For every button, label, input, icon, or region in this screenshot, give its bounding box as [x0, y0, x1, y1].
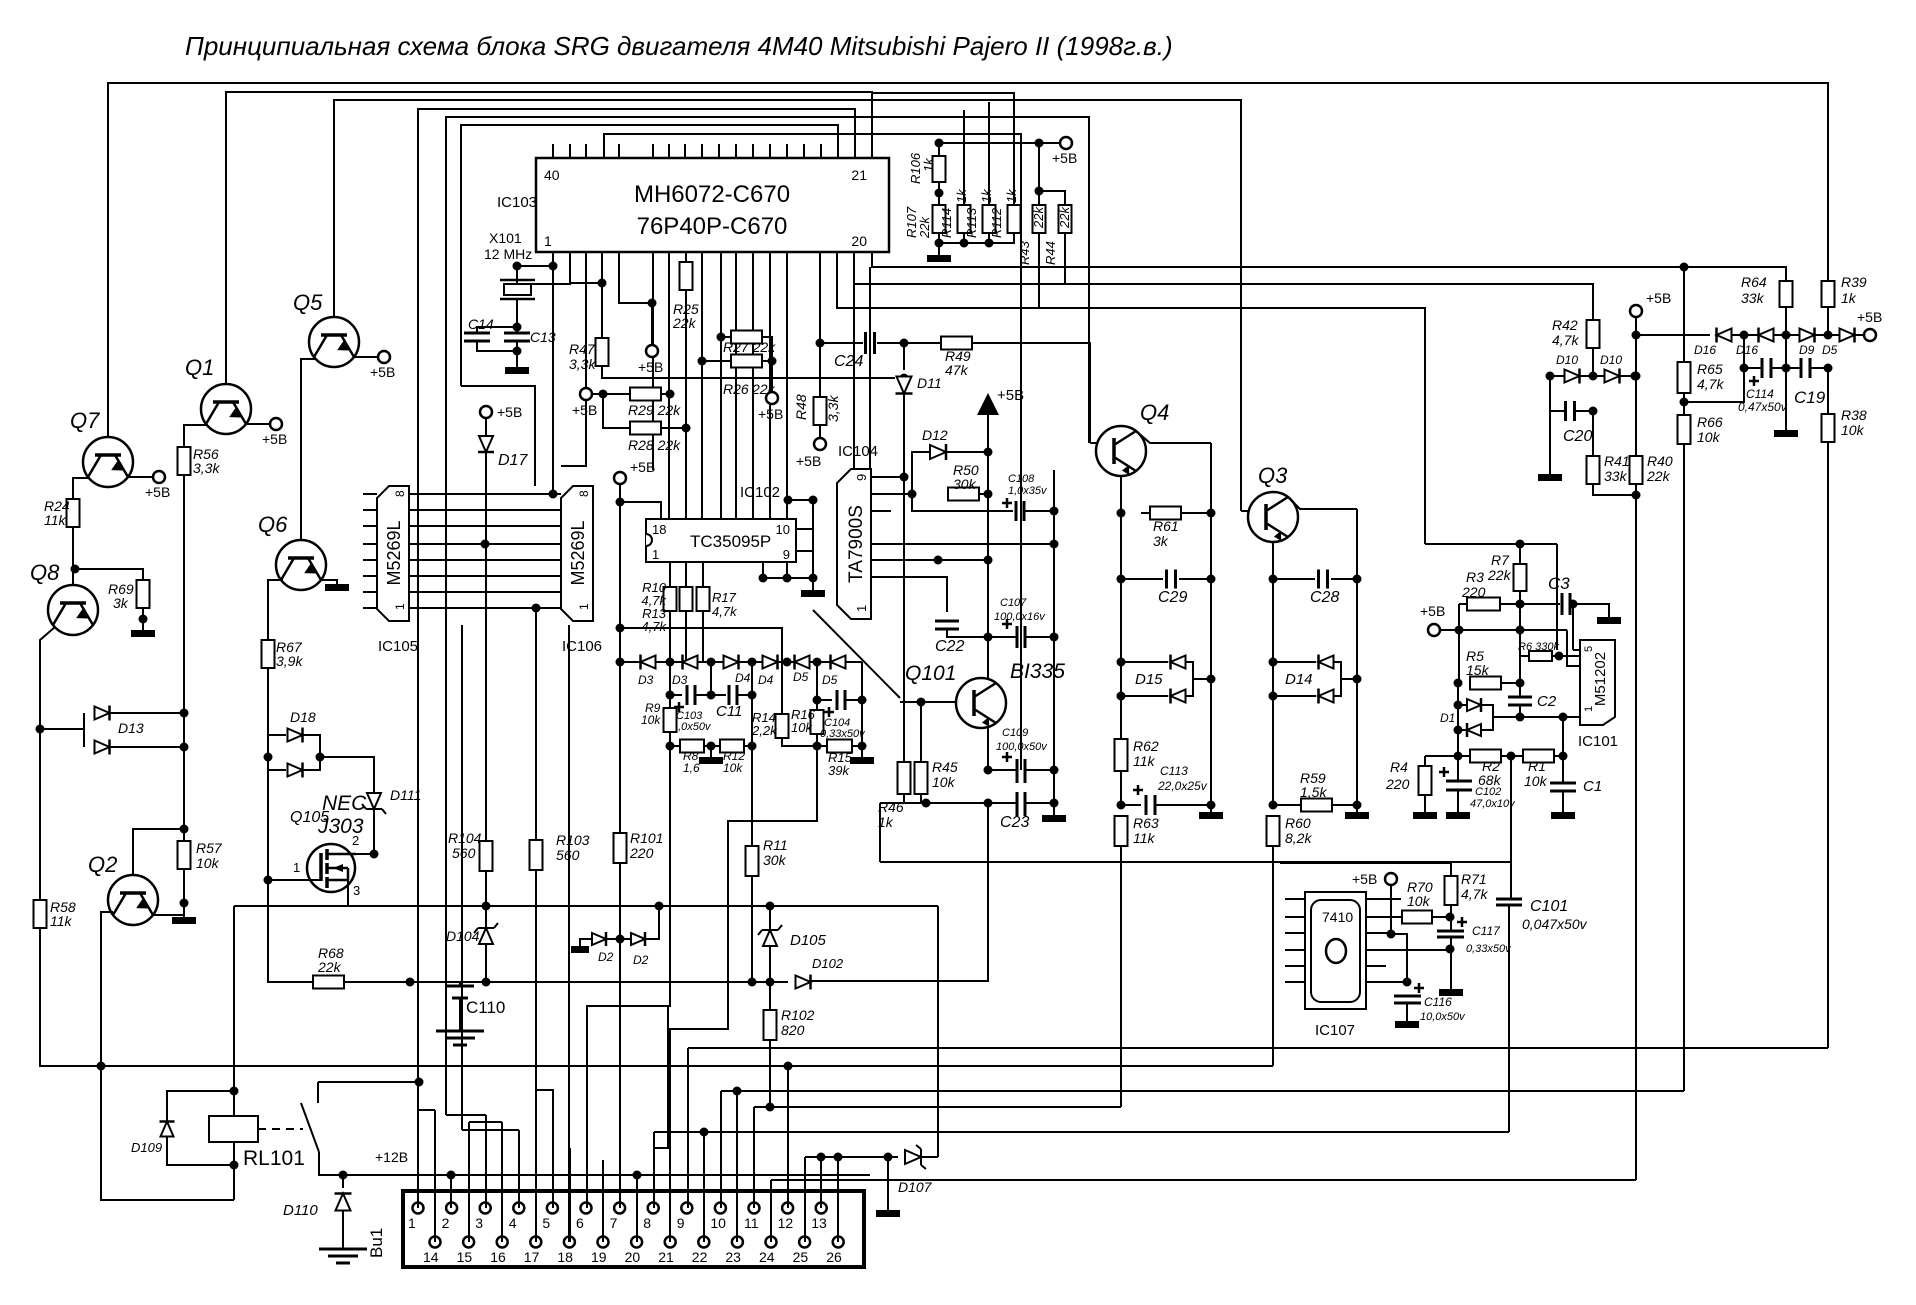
wire pin20 riser [636, 1175, 638, 1242]
transistor Q7 [83, 437, 133, 487]
connector pin 24 [766, 1237, 777, 1248]
capacitor C107 100,0x16v [1017, 626, 1025, 648]
svg-text:МН6072-С670: МН6072-С670 [634, 181, 790, 208]
wire C113 right [1155, 804, 1211, 806]
wire IC103 pin col 753 [752, 252, 754, 519]
wire X101 to C13 [516, 299, 518, 332]
node cap a [666, 691, 675, 700]
svg-text:C29: C29 [1158, 589, 1187, 606]
wire R11 down [751, 876, 753, 982]
wire R57 to ground [183, 869, 185, 917]
wire to ground [1210, 805, 1212, 812]
wire D2b up [645, 906, 659, 939]
terminal +5B D17 [480, 406, 492, 418]
svg-text:11: 11 [744, 1215, 759, 1231]
wire Q3 emitter col [1356, 509, 1358, 579]
svg-text:+5B: +5B [1857, 309, 1882, 325]
node C19 right [1824, 364, 1833, 373]
svg-text:5: 5 [542, 1215, 550, 1231]
svg-text:6: 6 [576, 1215, 584, 1231]
resistor R58 11k [34, 900, 47, 928]
resistor R16 10k [811, 710, 824, 734]
svg-text:8: 8 [393, 490, 407, 497]
resistor R101 220 [614, 833, 627, 863]
wire D11 col to R46 [903, 477, 905, 762]
wire R43 R44 tops [1039, 191, 1065, 205]
wire stair y1132 [654, 1131, 1509, 1133]
wire col1054 seg [1053, 770, 1055, 803]
wire IC103 pin col 770 [769, 252, 771, 519]
wire C24 to R49 [877, 342, 941, 344]
svg-text:3,3k: 3,3k [825, 395, 841, 422]
node C113 left [1117, 801, 1126, 810]
svg-text:10k: 10k [723, 761, 743, 775]
svg-text:16: 16 [490, 1249, 506, 1265]
svg-text:C107: C107 [1000, 597, 1027, 609]
wire C24 left [820, 342, 863, 344]
svg-text:Принципиальная схема блока SRG: Принципиальная схема блока SRG двигателя… [185, 31, 1173, 61]
node D16 mid [1740, 331, 1749, 340]
svg-text:+5B: +5B [630, 459, 655, 475]
terminal +5B Q1 [270, 418, 282, 430]
node pin1 riser [415, 1078, 424, 1087]
wire C114 right [1771, 367, 1786, 369]
wire R5 right [1501, 682, 1520, 684]
svg-text:R47: R47 [569, 341, 596, 357]
svg-text:0,33x50v: 0,33x50v [1466, 943, 1512, 955]
wire D9-D5 [1815, 334, 1840, 336]
svg-text:R40: R40 [1647, 453, 1673, 469]
wire R10 down [669, 611, 671, 662]
diode D1b [1467, 724, 1481, 736]
node C13 C14 join [513, 347, 522, 356]
svg-text:33k: 33k [1741, 290, 1765, 306]
IC IC107 7410 [1305, 892, 1366, 1009]
svg-text:22k: 22k [1031, 206, 1046, 229]
node D1 right [1516, 713, 1525, 722]
wire D15 bracket [1186, 662, 1193, 696]
node relay top [230, 1087, 239, 1096]
node R68 right [406, 978, 415, 987]
capacitor C11 [729, 685, 737, 705]
wire D2a to D2b [606, 938, 631, 940]
svg-text:Q6: Q6 [258, 512, 288, 537]
node C29 right [1207, 575, 1216, 584]
resistor R103 560 [530, 840, 543, 870]
svg-text:22k: 22k [1487, 567, 1512, 583]
svg-text:33k: 33k [1604, 468, 1628, 484]
node row a [666, 658, 675, 667]
terminal +5B D10 [1630, 305, 1642, 317]
zener D105 [763, 930, 777, 946]
node Q105 drain [370, 850, 379, 859]
wire D110 to earth [342, 1210, 344, 1249]
resistor R64 33k [1780, 281, 1793, 307]
wire Q101 collector up [987, 637, 989, 680]
svg-text:+5В: +5В [145, 484, 170, 500]
capacitor C103 1,0x50v [687, 685, 695, 705]
resistor R65 4,7k [1678, 362, 1691, 393]
svg-text:D14: D14 [1285, 671, 1313, 688]
capacitor C22 [935, 621, 959, 629]
capacitor C101 0,047x50v [1496, 899, 1522, 905]
wire pin12 riser [787, 1066, 789, 1208]
wire C11 right [737, 694, 752, 696]
connector pin 8 [648, 1203, 659, 1214]
wire IC103 pin col 721 [720, 252, 722, 519]
node D107 gnd [884, 1153, 893, 1162]
wire R27 right to +5B [762, 337, 772, 392]
wire col461 to IC106 top [461, 386, 535, 486]
node D13b right [180, 743, 189, 752]
svg-text:3k: 3k [113, 595, 129, 611]
wire D104 to y981 [485, 944, 487, 982]
wire R25 bottom col [685, 290, 687, 519]
node C116 top [1403, 978, 1412, 987]
svg-text:0,47x50v: 0,47x50v [1738, 400, 1788, 414]
svg-text:13: 13 [811, 1215, 827, 1231]
wire R4 to R2 [1425, 755, 1458, 757]
diode D16b [1759, 329, 1774, 342]
connector pin 14 [430, 1237, 441, 1248]
svg-text:100,0x50v: 100,0x50v [996, 741, 1048, 753]
node R101 top [616, 658, 625, 667]
wire d2 down [781, 662, 783, 714]
wire R3 to C3 [1500, 603, 1560, 605]
svg-text:Q2: Q2 [88, 852, 117, 877]
svg-text:R104: R104 [448, 830, 482, 846]
wire +5B stub [651, 303, 653, 345]
svg-text:5: 5 [1583, 646, 1595, 652]
wire stair y1048 [688, 1047, 1828, 1049]
ground Q6 [325, 584, 349, 591]
node row b [707, 658, 716, 667]
svg-text:C24: C24 [834, 353, 863, 370]
connector pin 26 [833, 1237, 844, 1248]
wire C20 right [1575, 410, 1593, 412]
wire relay coil bottom [233, 1142, 235, 1200]
wire IC104 top pin a [853, 284, 855, 469]
IC IC101 M51202 [1580, 640, 1615, 725]
wire D107 riser [937, 906, 939, 1157]
wire IC102 pin9 [796, 550, 813, 552]
capacitor C20 [1566, 401, 1575, 421]
svg-text:1: 1 [577, 603, 591, 610]
node R69 bottom [139, 615, 148, 624]
node +5B R3 col [1455, 626, 1464, 635]
wire D1 to IC101 pin1 [1493, 716, 1580, 718]
node C24 left [816, 339, 825, 348]
wire C23 right [1025, 802, 1054, 804]
node R50 right [984, 490, 993, 499]
wire to C104 [817, 699, 832, 701]
wire pin22 riser [703, 1132, 705, 1242]
wire R47 bottom long net [602, 366, 895, 378]
node C20 left [1546, 372, 1555, 381]
wire C14 to ground node [477, 341, 517, 351]
wire R42 to D10 [1592, 348, 1594, 376]
svg-text:39k: 39k [828, 763, 850, 778]
svg-text:D4: D4 [735, 671, 751, 685]
wire Q5 emitter to +5B [354, 356, 377, 358]
connector pin 20 [631, 1237, 642, 1248]
wire IC101 pin a [1573, 649, 1580, 651]
node R70 R71 [1446, 913, 1455, 922]
svg-text:TC35095P: TC35095P [690, 532, 771, 551]
svg-text:R57: R57 [196, 840, 223, 856]
node pin20 +12B [633, 1171, 642, 1180]
connector pin 4 [513, 1203, 524, 1214]
wire row right down [861, 662, 863, 700]
node Q2 base line [97, 1062, 106, 1071]
wire R15 to ground [861, 746, 863, 757]
wire +5B to D17 [485, 418, 487, 437]
wire R59 right [1332, 804, 1357, 806]
ground D2 [571, 946, 589, 953]
wire R102 down [769, 1040, 771, 1107]
wire to C108 [912, 494, 1013, 511]
node cap b [707, 691, 716, 700]
svg-text:+5В: +5В [370, 364, 395, 380]
svg-text:1k: 1k [1004, 188, 1019, 203]
svg-text:1: 1 [854, 605, 869, 612]
diode D4b [763, 656, 778, 669]
resistor R56 3,3k [178, 447, 191, 475]
svg-text:+5В: +5В [262, 431, 287, 447]
svg-text:19: 19 [591, 1249, 607, 1265]
svg-text:1k: 1k [979, 188, 994, 203]
svg-text:+5B: +5B [1420, 603, 1445, 619]
resistor R71 4,7k [1445, 876, 1458, 905]
wire bus L6 to IC103 pin [461, 125, 838, 386]
wire R4 to ground [1424, 795, 1426, 812]
node R57 top [180, 825, 189, 834]
node Q101 base [917, 698, 926, 707]
wire col1636 down [1635, 495, 1637, 1180]
svg-text:D109: D109 [131, 1140, 162, 1155]
resistor R114 1k [958, 205, 971, 233]
node +5B rail [1516, 626, 1525, 635]
svg-text:40: 40 [544, 167, 560, 183]
wire pin19 riser [602, 1160, 604, 1242]
svg-text:C13: C13 [530, 329, 556, 345]
svg-text:D3: D3 [638, 673, 654, 687]
svg-text:D102: D102 [812, 956, 844, 971]
wire col536 [535, 608, 537, 840]
svg-text:R6 330k: R6 330k [1518, 641, 1559, 653]
wire long rail y862 [880, 861, 1510, 863]
svg-text:D5: D5 [822, 673, 838, 687]
wire D14a left [1273, 661, 1316, 663]
svg-text:R29 22k: R29 22k [628, 402, 681, 418]
svg-text:+5В: +5В [796, 453, 821, 469]
connector Bu1 body [403, 1191, 864, 1267]
capacitor C13 [504, 333, 530, 341]
node C22 C107 [984, 633, 993, 642]
transistor Q5 [309, 317, 359, 367]
wire pin15-16 stair [469, 1121, 502, 1123]
node R114 bottom [960, 239, 969, 248]
capacitor C108 1,0x35v [1016, 501, 1024, 521]
node R45 R46 join [922, 799, 931, 808]
resistor R59 1,5k [1301, 799, 1332, 812]
svg-text:X101: X101 [489, 230, 522, 246]
wire to R7 [1519, 544, 1521, 564]
svg-text:17: 17 [524, 1249, 540, 1265]
svg-text:D4: D4 [758, 673, 774, 687]
wire IC104 pin to right col [871, 543, 1054, 545]
capacitor C102 47,0x10v [1446, 781, 1472, 790]
resistor R26 22k [731, 355, 762, 368]
wire R2 left [1458, 755, 1470, 757]
wire R6 left [1520, 630, 1529, 656]
node y981 R11 [748, 978, 757, 987]
diode D4a [724, 656, 739, 669]
resistor R5 15k [1470, 677, 1501, 690]
diode D1a [1467, 699, 1481, 711]
capacitor C24 [866, 332, 875, 354]
connector pin 12 [782, 1203, 793, 1214]
svg-text:20: 20 [625, 1249, 641, 1265]
wire +5B rail top right [939, 142, 1066, 144]
svg-text:+5В: +5В [638, 359, 663, 375]
wire pin24 riser [770, 1180, 772, 1242]
svg-text:R112: R112 [989, 207, 1004, 238]
svg-text:C113: C113 [1160, 764, 1188, 778]
wire D1b left [1458, 729, 1466, 731]
connector pin 18 [564, 1237, 575, 1248]
svg-text:R113: R113 [964, 207, 979, 238]
wire to R45 [920, 702, 922, 762]
svg-text:12: 12 [778, 1215, 794, 1231]
node R15 right [858, 742, 867, 751]
node row e [813, 658, 822, 667]
resistor R12 10k [720, 740, 744, 753]
wire R112 bottom [989, 233, 1014, 243]
wire IC104 pin9 to D11 [871, 476, 904, 478]
svg-text:R114: R114 [939, 208, 954, 238]
wire D13b to R56 col [110, 746, 184, 748]
ground C116 [1395, 1021, 1419, 1028]
terminal +5B Q7 [153, 471, 165, 483]
svg-text:100,0x16v: 100,0x16v [994, 611, 1046, 623]
wire R3 left col [1458, 604, 1460, 683]
node IC107 pin [1387, 930, 1396, 939]
ground C23 [1042, 815, 1066, 822]
node cap e [813, 696, 822, 705]
wire R114 bottom [939, 233, 964, 243]
svg-text:R61: R61 [1153, 518, 1179, 534]
connector pin 9 [681, 1203, 692, 1214]
resistor R10 R13 first [664, 587, 677, 611]
wire D1a left [1458, 704, 1466, 706]
wire IC104 pin to C22 [871, 577, 947, 612]
node C29 left [1117, 575, 1126, 584]
node diode row R64 [1782, 331, 1791, 340]
svg-text:NEC: NEC [322, 792, 367, 815]
node IC102 gnd b [783, 574, 792, 583]
wire R14 bottom [782, 738, 817, 746]
wire R113 column riser [988, 102, 990, 205]
svg-text:47k: 47k [945, 362, 969, 378]
ground R57 [172, 917, 196, 924]
wire c down2 [751, 695, 753, 746]
wire to C103 [670, 694, 682, 696]
svg-text:22k: 22k [317, 959, 342, 975]
wire +5B col 620 down [619, 484, 621, 662]
transistor Q101 BI335 [956, 678, 1006, 728]
resistor R11 30k [746, 846, 759, 876]
resistor R45 10k [915, 762, 928, 794]
wire IC105 pin to IC106 y494 [409, 493, 561, 495]
diode D12 [930, 445, 946, 459]
resistor R1 10k [1523, 750, 1554, 763]
node R113 bottom [985, 239, 994, 248]
capacitor C2 [1508, 697, 1532, 705]
ground D107 [876, 1210, 900, 1217]
wire IC103 pin net y284 to R42 [854, 252, 1593, 320]
wire Q7 to R24 [73, 478, 90, 499]
node R107 bottom [935, 239, 944, 248]
wire C108 to col [1024, 510, 1054, 512]
svg-text:3,3k: 3,3k [193, 460, 220, 476]
svg-text:R45: R45 [932, 759, 958, 775]
diode D3a [641, 656, 656, 669]
connector pin 16 [497, 1237, 508, 1248]
diode D3b [683, 656, 698, 669]
svg-text:BI335: BI335 [1010, 660, 1065, 683]
resistor R49 47k [941, 337, 972, 350]
node D18 right [316, 753, 325, 762]
terminal +5B R48 [814, 438, 826, 450]
node C1 top [1559, 713, 1568, 722]
wire gnd stem [887, 1157, 889, 1210]
transistor Q3 [1248, 492, 1298, 542]
resistor R9 10k [664, 708, 677, 732]
wire Q2 collector up [133, 829, 184, 874]
svg-text:+5B: +5B [997, 387, 1024, 404]
capacitor C1 [1550, 783, 1576, 791]
wire R15 right [852, 745, 864, 747]
svg-text:+5В: +5В [572, 402, 597, 418]
resistor R66 10k [1678, 415, 1691, 444]
resistor R102 820 [764, 1010, 777, 1040]
svg-text:10k: 10k [196, 855, 220, 871]
svg-text:1k: 1k [954, 188, 969, 203]
svg-text:22k: 22k [1057, 206, 1072, 229]
resistor R7 22k [1514, 564, 1527, 591]
svg-text:18: 18 [557, 1249, 573, 1265]
connector pin 13 [816, 1203, 827, 1214]
wire R6 to IC101 [1559, 655, 1580, 657]
wire bus L7 IC103 pin to C109 col [604, 134, 1021, 770]
svg-text:23: 23 [725, 1249, 741, 1265]
diode D16a [1717, 329, 1732, 342]
svg-text:C23: C23 [1000, 814, 1029, 831]
node R3 R7 C3 [1516, 600, 1525, 609]
resistor R41 33k [1587, 456, 1600, 484]
ground R69 [131, 630, 155, 637]
wire pin8 riser [653, 1132, 655, 1208]
svg-text:D110: D110 [283, 1202, 318, 1219]
wire C29 left [1121, 578, 1163, 580]
svg-text:IC104: IC104 [838, 443, 878, 460]
wire D1 left col [1457, 683, 1459, 756]
node D12 right [984, 448, 993, 457]
wire pin18 riser [569, 1148, 571, 1242]
resistor R61 3k [1150, 507, 1181, 520]
wire bus L3 Q5-collector to Q3 [334, 100, 1241, 511]
